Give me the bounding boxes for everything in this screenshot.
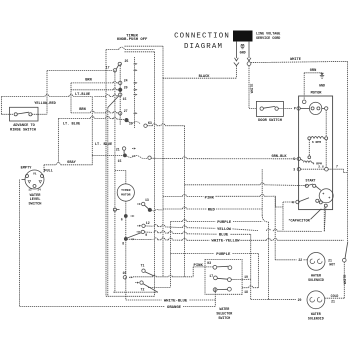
svg-text:WHITE: WHITE xyxy=(343,275,347,285)
svg-text:DOOR SWITCH: DOOR SWITCH xyxy=(258,119,282,123)
svg-text:SOLENOID: SOLENOID xyxy=(308,278,324,282)
svg-text:20: 20 xyxy=(298,298,302,302)
svg-text:7: 7 xyxy=(336,165,338,169)
svg-text:13: 13 xyxy=(145,198,149,202)
svg-text:CONNECTION: CONNECTION xyxy=(174,32,230,40)
svg-text:SWITCH: SWITCH xyxy=(218,316,230,320)
svg-text:LT. BLUE: LT. BLUE xyxy=(95,143,113,147)
svg-text:5: 5 xyxy=(293,157,295,161)
svg-text:20: 20 xyxy=(124,86,128,90)
svg-text:15: 15 xyxy=(118,159,122,163)
svg-text:6 RPM: 6 RPM xyxy=(312,140,321,144)
svg-text:2.8: 2.8 xyxy=(318,164,324,168)
svg-text:ORANGE: ORANGE xyxy=(167,306,182,310)
svg-text:26: 26 xyxy=(125,59,129,63)
svg-text:DIAGRAM: DIAGRAM xyxy=(184,43,223,51)
svg-text:12: 12 xyxy=(28,188,32,191)
svg-text:V1: V1 xyxy=(33,173,37,176)
svg-text:+: + xyxy=(328,197,330,201)
svg-text:YELLOW: YELLOW xyxy=(217,228,232,232)
svg-text:15: 15 xyxy=(123,97,127,101)
svg-text:27: 27 xyxy=(124,109,128,113)
svg-text:YELLOW-RED: YELLOW-RED xyxy=(34,102,56,106)
svg-text:SWITCH: SWITCH xyxy=(29,202,42,206)
svg-text:6: 6 xyxy=(121,218,123,222)
svg-text:PURPLE: PURPLE xyxy=(217,221,232,225)
svg-text:LT-BLUE: LT-BLUE xyxy=(75,93,91,97)
svg-text:GND: GND xyxy=(240,51,246,55)
svg-text:START: START xyxy=(306,178,316,182)
svg-text:22: 22 xyxy=(298,258,302,262)
svg-text:17: 17 xyxy=(106,66,110,70)
svg-text:9: 9 xyxy=(145,233,147,237)
svg-text:18: 18 xyxy=(244,290,248,294)
svg-text:RED: RED xyxy=(208,208,216,212)
svg-text:24: 24 xyxy=(124,79,128,83)
svg-text:GRN-BLK: GRN-BLK xyxy=(271,155,287,159)
svg-text:BLACK: BLACK xyxy=(199,75,211,79)
svg-text:HOT: HOT xyxy=(329,263,335,267)
svg-text:WHITE: WHITE xyxy=(290,58,302,62)
svg-text:PURPLE: PURPLE xyxy=(216,253,231,257)
svg-text:+: + xyxy=(322,193,324,197)
svg-text:21: 21 xyxy=(331,300,335,304)
svg-text:GRAY: GRAY xyxy=(67,161,76,165)
svg-text:BLUE: BLUE xyxy=(219,234,229,238)
svg-text:P: P xyxy=(294,107,296,111)
svg-text:PINK: PINK xyxy=(205,197,215,201)
svg-text:GND: GND xyxy=(319,84,325,88)
svg-text:SOLENOID: SOLENOID xyxy=(308,316,324,320)
svg-text:T2: T2 xyxy=(141,288,145,292)
svg-text:MOTOR: MOTOR xyxy=(311,92,323,96)
svg-text:GRN: GRN xyxy=(310,69,316,73)
svg-text:T1: T1 xyxy=(141,264,145,268)
svg-text:FULL: FULL xyxy=(44,170,53,174)
svg-text:COLD: COLD xyxy=(331,294,339,298)
svg-text:10: 10 xyxy=(122,271,126,275)
svg-text:*CAPACITOR: *CAPACITOR xyxy=(288,219,310,224)
svg-text:K3: K3 xyxy=(207,261,211,265)
svg-text:WHITE-YELLOW: WHITE-YELLOW xyxy=(211,240,240,244)
svg-text:LT. BLUE: LT. BLUE xyxy=(63,123,81,127)
svg-text:SERVICE CORD: SERVICE CORD xyxy=(256,37,280,41)
svg-text:17: 17 xyxy=(209,274,213,278)
svg-text:WHITE-BLUE: WHITE-BLUE xyxy=(164,299,188,303)
svg-text:KNOB-PUSH OFF: KNOB-PUSH OFF xyxy=(117,38,148,42)
svg-text:8: 8 xyxy=(122,241,124,245)
svg-text:WHITE: WHITE xyxy=(250,84,254,94)
svg-text:21: 21 xyxy=(116,148,120,152)
svg-text:K3: K3 xyxy=(148,121,152,125)
svg-text:BRN: BRN xyxy=(85,79,91,83)
svg-text:RINSE SWITCH: RINSE SWITCH xyxy=(10,129,36,133)
svg-text:EMPTY: EMPTY xyxy=(21,166,33,170)
svg-text:MOTOR: MOTOR xyxy=(121,192,130,196)
svg-text:14: 14 xyxy=(37,188,41,191)
svg-text:4: 4 xyxy=(292,200,294,204)
svg-text:BRN: BRN xyxy=(79,108,85,112)
svg-text:12: 12 xyxy=(146,221,150,225)
svg-text:19: 19 xyxy=(244,275,248,279)
svg-text:3: 3 xyxy=(293,168,295,172)
